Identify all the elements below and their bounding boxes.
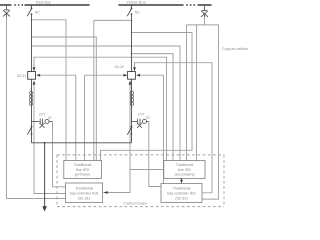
breaker 52-32 box [128,72,136,80]
svg-text:bay controller IED: bay controller IED [70,191,99,195]
IED box line IED primary [64,161,102,179]
arrow into breaker2 right [136,74,140,77]
transformer T2 (right off-page device symbol) [201,5,208,18]
breaker 52-31 box [28,72,36,80]
svg-text:bay controller IED: bay controller IED [167,191,196,195]
arrow into breaker1 top [33,67,36,71]
bus Yellow Bus [119,4,212,6]
node bay1 cable B junction [31,36,33,38]
arrow into breaker2 left [123,74,127,77]
bay 1 line below breaker [31,79,33,143]
svg-text:52-31: 52-31 [17,74,26,78]
bus Red Bus dashed gap dots [14,4,23,6]
wire T2 cable 3 to BC2 right [202,25,219,199]
control house dashed boundary [57,155,224,207]
svg-text:Traditional: Traditional [176,163,194,167]
CVT bay2 [132,119,149,128]
svg-text:1Ø: 1Ø [48,115,53,119]
svg-text:(primary): (primary) [75,173,91,177]
wire CVT1 cable to BC1 left [53,121,66,186]
svg-text:(52-31): (52-31) [78,196,91,200]
wire trip cable into breaker1 bottom (from bay controller 1) [34,84,66,193]
arrow into BC1 right side [103,191,108,194]
svg-text:line IED: line IED [76,168,90,172]
bay 2 line below breaker [131,79,133,143]
bay 1 main line to breaker [31,14,33,71]
bay 2 main line top [131,5,133,8]
svg-text:(secondary): (secondary) [174,173,195,177]
wire trip cable into breaker2 bottom (from BC1 right) [108,84,164,192]
svg-text:NC: NC [135,11,141,15]
wire bay2 cable B routed right then back to IED1 top [101,33,193,161]
svg-text:CVT: CVT [39,112,46,116]
svg-text:line IED: line IED [178,168,192,172]
wire feeder exit [44,143,46,207]
wire T2 cable 1 [186,25,188,161]
wire bay2 cable A to IED1 top [94,20,132,160]
node bay1 cable C junction [31,45,33,47]
wire CVT2 cable to BC2 left [149,121,161,186]
node tie junction [44,142,46,144]
wire bay1 cable C to IED2 top [32,46,181,161]
IED box line IED secondary [164,161,205,179]
node bay1 cable A junction [31,19,33,21]
arrow into breaker2 bottom [129,80,132,84]
bay 1 main line top [31,5,33,8]
svg-text:Red Bus: Red Bus [36,0,51,5]
wire trip cable into breaker2 top (from line IED secondary right) [135,63,213,193]
bus Red Bus [0,4,90,6]
wire trip cable into breaker2 right (to BC2 top) [140,75,163,183]
CT bay1 (stacked circles) [29,91,32,105]
arrow IED2 to BC2 [180,180,183,184]
svg-text:Traditional: Traditional [75,187,93,191]
arrow into breaker1 bottom [33,80,36,84]
svg-text:1Ø: 1Ø [146,115,151,119]
svg-text:Control house: Control house [123,201,147,205]
switch NC bay1 [27,8,32,16]
svg-text:52-32: 52-32 [115,65,124,69]
svg-text:(52-32): (52-32) [175,196,188,200]
svg-text:Copper cables: Copper cables [222,46,248,51]
wire bay2 cable C to IED2 top [132,54,174,161]
wire trip cable into breaker2 left (from line IED primary) [85,75,123,160]
bus Yellow Bus dashed gap dots [186,4,195,6]
wire trip cable into breaker1 right (from line IED primary) [40,75,76,160]
switch NC bay2 [127,8,132,16]
bay 2 main line to breaker [131,14,133,71]
arrow into breaker2 top [133,67,136,71]
node bay2 cable A junction [131,20,133,22]
wire device1 cable to BC1 left [7,17,66,199]
arrow into breaker1 right [36,74,40,77]
svg-text:NC: NC [35,11,41,15]
svg-text:Yellow Bus: Yellow Bus [126,0,145,5]
wire line tie between bays (dark) [32,142,132,144]
IED box bay controller 1 [66,183,103,203]
disconnect switch bay1 [27,126,32,135]
arrow feeder exit bottom [42,206,47,211]
wire trip cable into breaker1 top (from line IED secondary) [34,57,167,160]
disconnect switch bay2 [127,126,132,135]
wire T2 cable 2 [196,25,198,161]
wire bay1 cable B to IED2 left [32,37,97,161]
transformer T1 (left off-page device symbol) [3,5,10,18]
svg-text:Traditional: Traditional [173,187,191,191]
node bay2 cable B junction [131,32,133,34]
wire bay1 cable A to IED1 top [32,20,67,161]
CT bay2 (stacked circles) [130,91,133,105]
wire T2 stem lower [204,17,206,25]
IED box bay controller 2 [161,184,202,203]
wire IED2 to BC2 [181,178,183,180]
svg-text:Traditional: Traditional [74,163,92,167]
CVT bay1 [32,119,53,128]
node bay2 cable C junction [131,53,133,55]
svg-text:CVT: CVT [138,112,145,116]
wire bar under T2 [187,24,219,26]
